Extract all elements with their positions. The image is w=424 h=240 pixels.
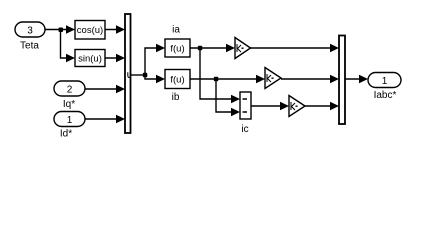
Mux1 (3 inputs) (339, 36, 345, 125)
svg-text:cos(u): cos(u) (77, 25, 103, 36)
svg-text:ic: ic (241, 124, 248, 135)
arrowhead into Fcn ib (156, 75, 165, 84)
arrowhead into Mux1 port3 (330, 102, 339, 111)
arrowhead into gain3 (280, 102, 289, 111)
wire Id* to Mux (85, 118, 123, 120)
arrowhead into Sum port1 (231, 95, 240, 104)
wire Fcn ib to gain2 (190, 78, 263, 80)
wire Mux1 to outport Iabc* (345, 78, 366, 80)
svg-text:f(u): f(u) (170, 75, 184, 86)
svg-text:1: 1 (67, 115, 73, 126)
wire Mux output to junction (131, 74, 146, 76)
junction node at Mux output (143, 73, 148, 78)
wire gain3 to Mux1 (305, 105, 337, 107)
wire Teta to cos(u) (45, 29, 72, 31)
svg-text:Id*: Id* (60, 129, 72, 140)
junction node on ia wire (198, 46, 203, 51)
inport 1 (Id*) (54, 112, 85, 127)
svg-text:3: 3 (27, 26, 33, 37)
wire gain1 to Mux1 (250, 47, 337, 49)
wire Iq* to Mux (85, 88, 123, 90)
wire Fcn ia to gain1 (190, 47, 233, 49)
junction node on ib wire (214, 77, 219, 82)
gain3 triangle (289, 96, 305, 117)
junction node after Teta (59, 28, 64, 33)
Mux (4 inputs) (125, 14, 131, 133)
svg-text:1: 1 (382, 76, 388, 87)
wire ib drop to Sum input 2 (216, 79, 238, 112)
wire Sum to gain3 (251, 105, 287, 107)
Sum block (-ia-ib) (240, 92, 251, 119)
wire sin(u) to Mux (105, 57, 123, 59)
outport 1 (Iabc*) (368, 73, 401, 88)
arrowhead into Fcn ia (156, 44, 165, 53)
arrowhead into outport Iabc* (359, 75, 368, 84)
arrowhead into sin(u) (66, 54, 75, 63)
wire branch down to sin(u) (61, 30, 73, 59)
wire junction up to Fcn ia (145, 48, 163, 75)
arrowhead into cos(u) (66, 25, 75, 34)
svg-text:f(u): f(u) (170, 44, 184, 55)
block cos(u) (75, 21, 105, 40)
Fcn block ib (165, 70, 190, 89)
arrowhead into Mux port3 (116, 85, 125, 94)
arrowhead into Mux port4 (116, 115, 125, 124)
svg-text:sin(u): sin(u) (78, 54, 102, 65)
gain1 triangle (235, 38, 251, 59)
arrowhead into Sum port2 (231, 108, 240, 117)
signal label u (128, 72, 131, 77)
svg-text:ia: ia (172, 25, 180, 36)
arrowhead into gain2 (256, 75, 265, 84)
svg-text:2: 2 (67, 85, 73, 96)
arrowhead into Mux1 port2 (330, 75, 339, 84)
svg-text:Iabc*: Iabc* (374, 90, 397, 101)
inport 3 (Teta) (15, 22, 45, 37)
arrowhead into Mux port2 (116, 54, 125, 63)
wire junction down to Fcn ib (145, 75, 163, 79)
svg-text:Teta: Teta (20, 41, 39, 52)
inport 2 (Iq*) (54, 81, 85, 96)
wire gain2 to Mux1 (281, 78, 337, 80)
wire ia drop to Sum input 1 (200, 48, 238, 99)
arrowhead into gain1 (226, 44, 235, 53)
wire cos(u) to Mux (105, 29, 123, 31)
svg-text:ib: ib (172, 92, 180, 103)
svg-text:Iq*: Iq* (63, 99, 75, 110)
arrowhead into Mux port1 (116, 25, 125, 34)
Fcn block ia (165, 39, 190, 57)
block sin(u) (75, 50, 105, 67)
arrowhead into Mux1 port1 (330, 44, 339, 53)
gain2 triangle (265, 68, 281, 89)
